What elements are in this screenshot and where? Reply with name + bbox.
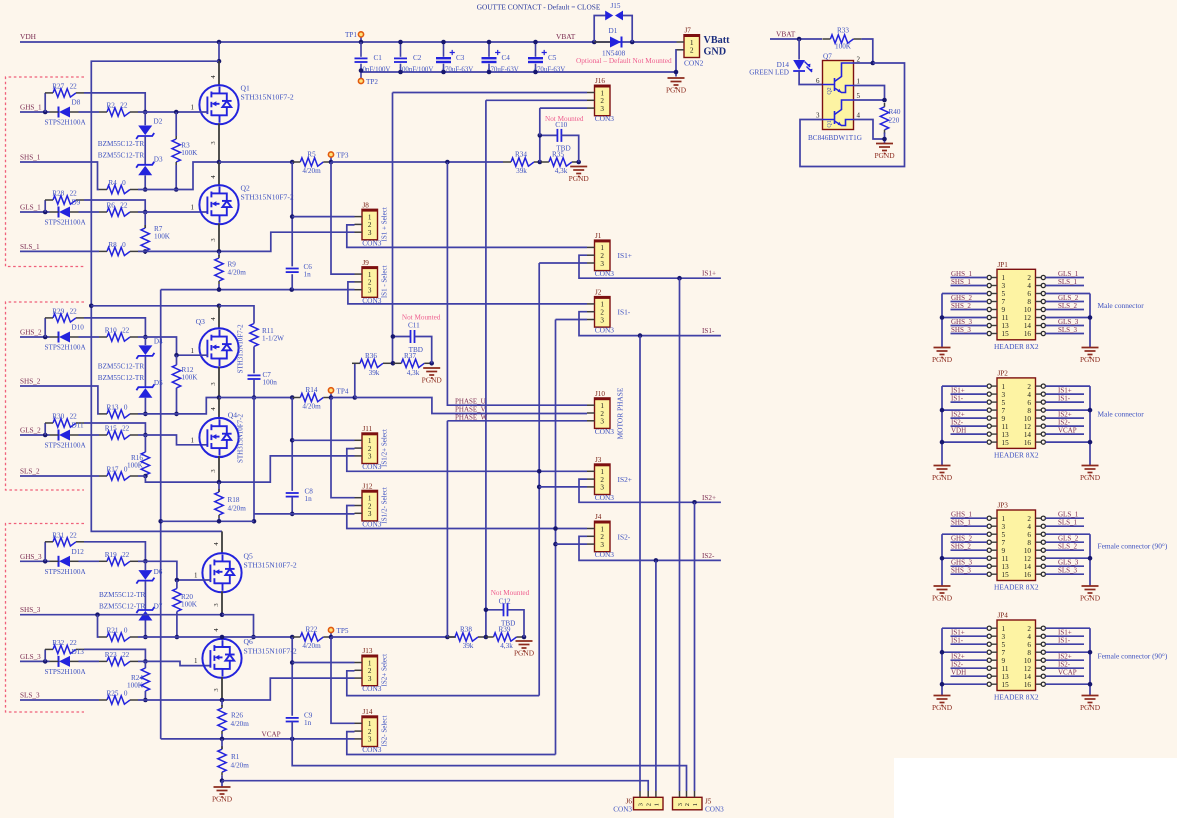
svg-text:TBD: TBD [556,145,570,153]
svg-text:SLS_2: SLS_2 [20,468,40,476]
wire SLS_2 to J11 pin3 [138,475,145,477]
wire R33 to Q7 pin2 node [861,39,872,63]
svg-text:IS1 + Select: IS1 + Select [381,207,389,241]
svg-text:IS2+: IS2+ [1058,410,1072,418]
wire J7 pin2 to PGND [675,50,678,72]
svg-text:J1: J1 [595,232,602,240]
svg-text:6: 6 [1027,290,1031,298]
resistor R22 4/20m [300,633,323,641]
wire JP4 right PGND rail [1089,628,1091,695]
svg-text:R17 0: R17 0 [107,465,128,473]
connector J2 CON3 IS1- [595,297,611,328]
wire J13 pin2 south [347,671,539,696]
pin 3 label Q6 source [221,677,223,700]
resistor R15 22 [107,431,130,439]
svg-text:2: 2 [646,803,653,806]
wire IS1+ vertical to J5 pin1 [679,278,681,791]
svg-text:IS1+: IS1+ [702,270,716,278]
svg-text:39k: 39k [516,167,527,175]
svg-text:3: 3 [368,510,372,518]
svg-text:D2: D2 [154,118,163,126]
wire junction [1088,440,1093,445]
junction phase2 node TP4 [217,395,222,400]
svg-text:GND: GND [704,47,727,58]
svg-text:D4: D4 [154,337,163,345]
svg-text:1: 1 [600,468,604,476]
svg-text:100nF/100V: 100nF/100V [399,66,434,73]
svg-text:4/20m: 4/20m [231,762,250,770]
svg-text:7: 7 [1002,539,1006,547]
zener diode D7 BZM55C12-TR [144,581,146,610]
wire junction [290,395,295,400]
svg-text:VBatt: VBatt [704,35,731,46]
wire junction [1088,408,1093,413]
svg-text:R19 22: R19 22 [105,551,130,559]
wire junction [158,519,163,524]
resistor R5 4/20m [300,158,323,166]
pin 4 label Q4 drain [218,398,220,420]
header JP2 HEADER 8X2 [997,378,1036,449]
wire PGND row to J6 pin2 [222,781,648,791]
pin 4 label Q2 drain [218,162,220,186]
wire JP3 right PGND rail [1089,534,1091,586]
power ground PGND right of JP1 [1082,348,1099,358]
svg-text:2: 2 [1027,274,1031,282]
wire junction [445,160,450,165]
svg-text:SHS_1: SHS_1 [951,519,971,527]
svg-text:11: 11 [1002,314,1009,322]
svg-text:SHS_2: SHS_2 [951,543,971,551]
resistor R3 100K [175,112,177,136]
svg-text:12: 12 [1024,314,1032,322]
svg-text:2: 2 [690,46,694,55]
wire IS2- vertical to J6 pin3 [655,560,657,791]
zener diode D2 BZM55C12-TR [144,112,146,125]
svg-text:11: 11 [1002,423,1009,431]
wire junction [174,187,179,192]
svg-text:GLS_2: GLS_2 [20,427,41,435]
svg-text:STH315N10F7-2: STH315N10F7-2 [241,93,294,102]
power ground PGND main [214,787,231,797]
svg-text:R40: R40 [889,108,901,116]
wire junction [538,133,543,138]
svg-text:1: 1 [857,78,861,86]
wire to J11 pin1 [292,439,354,441]
capacitor C5 470uF-63V [535,42,537,57]
svg-text:PGND: PGND [422,376,443,385]
svg-text:GLS_1: GLS_1 [1058,511,1079,519]
connector J3 CON3 IS2+ [595,464,611,495]
svg-text:CON3: CON3 [595,326,615,335]
svg-text:IS2+: IS2+ [951,653,965,661]
wire PHASE_U from TP3 [447,162,587,405]
wire junction [329,395,334,400]
power ground PGND left of JP3 [934,586,951,596]
wire TP3 row east [331,161,503,163]
svg-text:14: 14 [1024,563,1032,571]
svg-text:10: 10 [1024,547,1032,555]
wire R13 row to phase2 node [138,398,219,414]
wire junction [290,214,295,219]
svg-text:12: 12 [1024,555,1032,563]
svg-text:VCAP: VCAP [1058,426,1077,434]
svg-text:IS1-: IS1- [951,394,964,402]
svg-text:100K: 100K [127,682,144,690]
svg-text:JP3: JP3 [998,502,1009,510]
connector J9 CON3 IS1- select [362,267,378,298]
svg-text:R21 0: R21 0 [107,627,128,635]
svg-text:GHS_2: GHS_2 [951,535,973,543]
wire junction [940,440,945,445]
pin 3 label Q5 source [221,591,223,615]
svg-text:PGND: PGND [932,703,953,712]
wire SLS_1 to J8 pin3 [138,232,355,251]
dashed group box phase 3 [6,524,85,713]
svg-text:D7: D7 [154,603,163,611]
svg-text:9: 9 [1002,547,1006,555]
wire SHS_2 to R13 row [20,386,99,414]
svg-text:3: 3 [600,316,604,324]
svg-text:J12: J12 [363,482,373,490]
svg-text:3: 3 [816,112,820,120]
resistor R19 22 [107,557,130,565]
resistor R35 4,3k [549,158,572,166]
svg-text:1: 1 [1002,383,1006,391]
svg-text:Male connector: Male connector [1098,410,1145,419]
wire junction [522,635,527,640]
wire junction [43,110,48,115]
wire GLS_1 [20,211,50,213]
wire junction [43,433,48,438]
svg-text:CON3: CON3 [613,806,632,814]
connector J4 CON3 IS2- [595,521,611,552]
pin 4 label Q6 drain [221,637,223,640]
wire JP3 left PGND rail [941,534,943,586]
svg-text:11: 11 [1002,665,1009,673]
capacitor C10 TBD not mounted [539,135,541,162]
wire D8 to R2 22 [79,111,100,113]
svg-text:J15: J15 [611,2,621,10]
wire junction [533,40,538,45]
wire SLS_2 row [20,475,99,477]
svg-text:1: 1 [600,244,604,252]
wire junction [217,59,222,64]
svg-text:D11: D11 [72,422,85,430]
wire to J8 pin1 [292,216,354,218]
svg-text:16: 16 [1024,681,1032,689]
svg-text:MOTOR PHASE: MOTOR PHASE [615,387,624,439]
svg-text:IS1 - Select: IS1 - Select [381,265,389,298]
resistor R28 22 loop [44,200,46,212]
svg-text:J3: J3 [595,456,602,464]
svg-text:3: 3 [1002,523,1006,531]
svg-text:2: 2 [368,221,372,229]
pin 3 label Q1 source [218,123,220,162]
svg-text:1n: 1n [304,719,312,727]
wire junction [289,287,294,292]
wire J3 pin3 [539,486,587,488]
svg-text:Q3: Q3 [196,317,205,326]
svg-text:4/20m: 4/20m [228,269,247,277]
svg-text:IS2-: IS2- [1058,661,1071,669]
wire GLS_2 [20,434,50,436]
svg-text:CON3: CON3 [362,684,382,693]
wire junction [143,659,148,664]
resistor R40 220 [880,107,888,130]
svg-text:4,3k: 4,3k [555,167,568,175]
svg-text:13: 13 [1002,563,1010,571]
svg-text:4: 4 [1027,633,1031,641]
svg-text:8: 8 [1027,649,1031,657]
wire VCAP sense vertical [160,290,162,739]
transistor pair Q7 BC846BDW1T1G [823,61,854,130]
wire Q7 pin3 feedback loop [800,63,905,167]
svg-text:TP3: TP3 [337,152,349,160]
resistor R24 100K [144,661,146,668]
svg-text:CON3: CON3 [595,269,615,278]
diode D10 STPS2H100A [58,332,60,343]
svg-text:2: 2 [600,252,604,260]
wire junction [251,635,256,640]
svg-text:D12: D12 [72,548,85,556]
svg-text:SLS_3: SLS_3 [1058,326,1078,334]
wire junction [252,395,257,400]
svg-text:GHS_3: GHS_3 [20,553,42,561]
svg-text:39k: 39k [369,369,380,377]
svg-text:2: 2 [368,502,372,510]
wire Q5 source jog to phase3 node [222,615,254,637]
svg-text:BZM55C12-TR: BZM55C12-TR [99,591,146,599]
svg-text:SLS_3: SLS_3 [1058,567,1078,575]
svg-text:R13 0: R13 0 [107,403,128,411]
svg-text:TBD: TBD [501,619,515,627]
wire junction [175,578,180,583]
svg-text:R34: R34 [515,151,527,159]
junction D1 cathode / J15 [630,40,635,45]
wire SHS_3 drop to R21 row [98,615,100,637]
svg-text:3: 3 [600,260,604,268]
svg-text:VBAT: VBAT [556,32,576,41]
svg-text:R23 22: R23 22 [105,651,130,659]
svg-text:D6: D6 [154,568,163,576]
svg-text:R27 22: R27 22 [52,82,77,90]
svg-text:IS2-: IS2- [1058,418,1071,426]
svg-text:IS1+: IS1+ [618,251,632,260]
svg-text:1: 1 [191,204,195,212]
svg-text:11: 11 [1002,555,1009,563]
wire junction [143,698,148,703]
svg-text:PGND: PGND [932,473,953,482]
svg-text:GLS_1: GLS_1 [1058,270,1079,278]
svg-text:7: 7 [1002,649,1006,657]
svg-text:15: 15 [1002,681,1010,689]
svg-text:BZM55C12-TR: BZM55C12-TR [98,152,145,160]
wire junction [174,412,179,417]
junction Q6 source SLS_3 [220,698,225,703]
header JP4 HEADER 8X2 [997,620,1036,691]
resistor R36 39k [354,363,356,397]
wire JP2 right PGND rail [1089,386,1091,465]
wire junction [43,335,48,340]
svg-text:R4 0: R4 0 [108,179,126,187]
svg-text:R8 0: R8 0 [108,241,126,249]
svg-text:3: 3 [368,229,372,237]
wire junction [174,110,179,115]
svg-text:6: 6 [1027,531,1031,539]
resistor R38 39k [455,633,478,641]
wire junction [220,778,225,783]
wire junction [290,660,295,665]
svg-text:1: 1 [368,659,372,667]
wire TP5 vertical to J14 pin1 [331,637,355,723]
svg-text:470uF-63V: 470uF-63V [442,66,474,73]
svg-text:IS1-: IS1- [618,308,631,317]
svg-text:TBD: TBD [409,346,423,354]
svg-text:GHS_3: GHS_3 [951,318,973,326]
wire TP5 row east [331,636,447,638]
svg-text:STPS2H100A: STPS2H100A [45,344,87,352]
svg-text:16: 16 [1024,571,1032,579]
svg-text:C12: C12 [499,597,511,605]
svg-text:8: 8 [1027,298,1031,306]
wire J16 pin1 vertical to C11 [392,93,394,364]
wire PHASE_W from TP5 [447,420,587,422]
svg-text:Female connector (90°): Female connector (90°) [1098,542,1168,551]
svg-text:4/20m: 4/20m [302,402,321,410]
wire junction [143,635,148,640]
dashed group box phase 1 [6,77,85,267]
svg-text:GLS_2: GLS_2 [1058,535,1079,543]
MOSFET Q5 STH315N10F7-2 [202,553,241,592]
svg-text:J4: J4 [595,513,602,521]
svg-text:J11: J11 [363,425,373,433]
wire VCAP row [161,738,355,740]
svg-text:15: 15 [1002,439,1010,447]
svg-text:CON3: CON3 [362,519,382,528]
resistor R11 1-1/2W snubber [219,306,254,324]
svg-text:IS1+: IS1+ [1058,386,1072,394]
svg-text:VCAP: VCAP [262,730,281,738]
wire JP1 right PGND rail [1089,294,1091,348]
junction VDH rail phase2 [89,304,94,309]
wire junction [391,361,396,366]
svg-text:8: 8 [1027,539,1031,547]
svg-text:R25 0: R25 0 [107,689,128,697]
wire junction [940,650,945,655]
svg-text:IS2+: IS2+ [702,494,716,502]
wire junction [391,334,396,339]
svg-text:Q2: Q2 [241,184,250,193]
connector J1 CON3 IS1+ [595,240,611,271]
svg-text:J16: J16 [595,77,605,85]
wire junction [359,68,364,73]
svg-text:D3: D3 [154,156,163,164]
power ground PGND under R39 [516,641,533,651]
wire junction [43,559,48,564]
wire junction [445,635,450,640]
wires and net labels left of JP3 [951,517,988,519]
svg-text:PGND: PGND [1080,594,1101,603]
svg-text:Q1: Q1 [827,120,833,127]
svg-text:TP2: TP2 [366,78,378,86]
svg-text:SLS_3: SLS_3 [20,692,40,700]
svg-text:CON3: CON3 [595,114,615,123]
net VDH rail wire [20,41,677,43]
wire J2 pin2 to IS1- net [579,312,721,336]
wire SHS_1 to R4 row [20,162,99,190]
svg-text:Not Mounted: Not Mounted [491,589,530,597]
wire J9 pin2 south to J2 pin1 [348,282,587,304]
wire J16 pin2 west [486,99,587,101]
wire junction [217,287,222,292]
wire junction [674,70,679,75]
wire R15 to Q4 gate jog [138,434,145,436]
svg-text:CON3: CON3 [362,745,382,754]
svg-text:R31 22: R31 22 [52,531,77,539]
capacitor C12 TBD not mounted [486,609,504,611]
wire snubber column down [253,398,255,522]
svg-text:R18: R18 [228,496,240,504]
svg-text:Male connector: Male connector [1098,301,1145,310]
svg-text:Optional – Default Not Mounted: Optional – Default Not Mounted [576,56,672,65]
svg-text:1: 1 [1002,515,1006,523]
svg-text:IS2+: IS2+ [618,475,632,484]
wire junction [940,408,945,413]
svg-text:BZM55C12-TR: BZM55C12-TR [98,140,145,148]
svg-text:1: 1 [600,402,604,410]
wire junction [429,361,434,366]
svg-text:1: 1 [368,271,372,279]
svg-text:4/20m: 4/20m [231,720,250,728]
svg-text:R38: R38 [460,626,472,634]
svg-text:3: 3 [677,803,684,806]
wire junction [220,635,225,640]
capacitor C4 470uF-63V [488,42,490,57]
zener diode D4 BZM55C12-TR [144,337,146,345]
svg-text:IS1+: IS1+ [951,386,965,394]
svg-text:Q2: Q2 [827,87,833,94]
connector J13 CON3 IS2+ select [362,655,378,686]
wire junction [329,160,334,165]
svg-text:SHS_1: SHS_1 [951,278,971,286]
svg-text:TP1: TP1 [345,31,357,39]
wire junction [143,335,148,340]
svg-text:1: 1 [600,301,604,309]
svg-text:J10: J10 [595,390,605,398]
svg-text:GOUTTE CONTACT - Default = CLO: GOUTTE CONTACT - Default = CLOSE [477,3,601,12]
svg-text:R32 22: R32 22 [52,639,77,647]
resistor R25 0 [107,696,130,704]
svg-text:TP4: TP4 [337,387,349,395]
wire JP1 left PGND rail [941,294,943,348]
svg-text:220: 220 [889,117,900,125]
MOSFET Q2 STH315N10F7-2 [199,185,238,224]
svg-text:GLS_2: GLS_2 [1058,294,1079,302]
svg-text:J9: J9 [363,259,370,267]
power ground PGND right of JP4 [1082,696,1099,706]
svg-text:R5: R5 [307,151,316,159]
svg-text:2: 2 [368,279,372,287]
svg-text:100K: 100K [154,233,171,241]
wire J12 pin2 south to J4 pin1 [347,506,587,529]
resistor R23 22 [107,657,130,665]
wire junction [553,526,558,531]
diode D8 STPS2H100A [58,107,60,118]
svg-text:D13: D13 [72,648,85,656]
svg-text:5: 5 [1002,399,1006,407]
svg-text:GLS_3: GLS_3 [20,653,41,661]
svg-text:13: 13 [1002,322,1010,330]
